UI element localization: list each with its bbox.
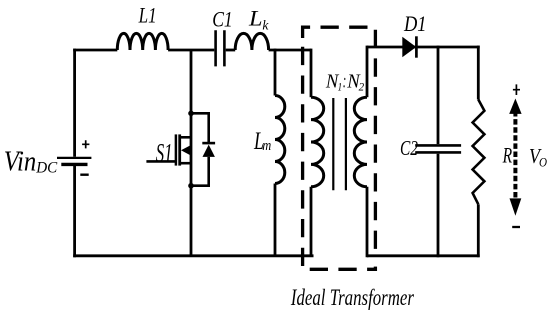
wire body-diode branch lower: [191, 157, 209, 186]
wire transformer secondary upper lead: [366, 46, 369, 98]
wire C2 branch upper lead: [437, 46, 440, 145]
wire body-diode branch upper: [191, 113, 209, 142]
wire Lk to transformer primary (node at Lm branch): [269, 49, 311, 52]
label N1:N2: [325, 71, 364, 93]
svg-text:L1: L1: [138, 3, 157, 28]
inductor Lm: [275, 96, 285, 184]
transistor S1 channel bar: [178, 134, 181, 165]
transformer primary winding: [311, 97, 324, 187]
svg-text:L: L: [248, 5, 263, 30]
node drain junction dot: [188, 111, 194, 117]
svg-text:D1: D1: [403, 11, 426, 36]
node source junction dot: [188, 183, 194, 189]
wire Lm branch lower lead: [274, 184, 277, 256]
svg-text:O: O: [539, 155, 548, 170]
wire transformer secondary lower lead: [366, 187, 369, 257]
wire L1 to C1: [168, 49, 214, 52]
ideal transformer dashed box: [303, 27, 376, 269]
transistor S1 drain stub: [181, 136, 192, 139]
svg-text:m: m: [262, 138, 271, 154]
diode D1 triangle: [402, 37, 416, 57]
diode body triangle: [203, 145, 215, 157]
transistor S1 body arrow: [181, 145, 191, 155]
wire C2 branch lower lead: [437, 154, 440, 258]
svg-text:2: 2: [359, 80, 365, 94]
diode body cathode bar: [202, 142, 215, 145]
svg-text:R: R: [502, 143, 513, 168]
transistor S1 gate bar: [175, 134, 178, 165]
wire left rail lower: [73, 166, 76, 258]
wire Lm branch upper lead: [274, 49, 277, 96]
transistor S1 source stub: [181, 162, 192, 165]
svg-text:Vin: Vin: [4, 146, 37, 177]
transformer core line right: [345, 98, 347, 190]
svg-text:C2: C2: [400, 136, 418, 160]
output arrow VO dashed shaft: [513, 111, 517, 201]
label output minus: [512, 226, 520, 228]
svg-text:S1: S1: [156, 138, 173, 167]
wire bottom rail left: [73, 254, 313, 257]
battery VinDC plate negative (short thick): [61, 163, 87, 166]
capacitor C1: [216, 30, 225, 66]
svg-text:Ideal Transformer: Ideal Transformer: [290, 285, 414, 310]
wire transformer primary lower lead: [310, 187, 313, 256]
transformer core line left: [332, 98, 334, 190]
wire bottom rail right: [367, 254, 480, 257]
wire C1 to Lk: [226, 49, 236, 52]
svg-text:k: k: [262, 18, 269, 33]
wire R branch lower lead: [477, 204, 480, 257]
inductor Lk: [235, 33, 268, 50]
battery VinDC plate positive (long): [57, 157, 91, 159]
svg-text:C1: C1: [212, 7, 233, 32]
svg-text::: :: [343, 71, 347, 92]
mask patch (match target dash gap): [373, 258, 380, 267]
svg-text:DC: DC: [35, 159, 58, 176]
svg-text:1: 1: [338, 80, 343, 94]
resistor R zigzag: [473, 100, 485, 205]
inductor L1: [117, 33, 168, 50]
diode D1 cathode bar: [415, 36, 418, 57]
wire switch branch vertical: [190, 50, 193, 256]
wire top rail right: [367, 46, 480, 49]
transformer secondary winding: [354, 97, 367, 187]
wire transformer primary upper lead: [310, 49, 313, 98]
output arrow VO head down: [510, 198, 522, 215]
capacitor C2: [415, 145, 461, 152]
wire left rail upper: [73, 49, 76, 157]
output arrow VO head up: [509, 99, 521, 114]
label output plus: [513, 84, 520, 95]
wire R branch upper lead: [477, 46, 480, 100]
label battery minus: [80, 173, 88, 175]
transistor S1 gate lead: [146, 160, 175, 163]
wire top rail from source to L1: [73, 49, 117, 52]
label battery plus: [82, 140, 89, 148]
